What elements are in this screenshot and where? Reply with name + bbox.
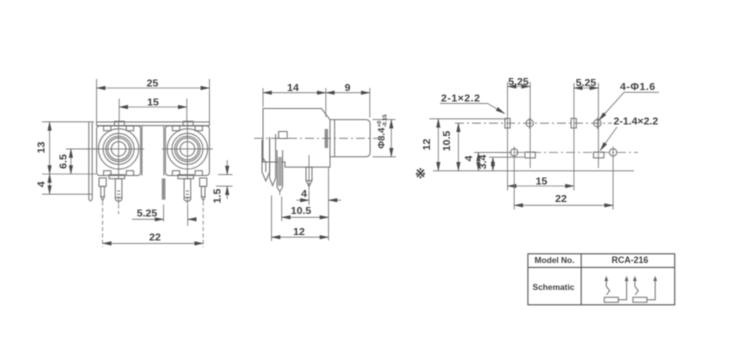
svg-text:2-1×2.2: 2-1×2.2 [441, 93, 480, 105]
bottom hole E [511, 147, 518, 159]
dimension 6.5 [58, 149, 91, 174]
bottom slot F [525, 152, 535, 158]
middle pin (side) [306, 155, 312, 190]
dimension 10.5 (pcb) [441, 123, 459, 171]
dimension 4 (pcb) [463, 152, 511, 170]
label 2-1.4x2.2 [600, 116, 658, 151]
dimension 5.25 front [132, 205, 196, 227]
side body [263, 109, 330, 168]
dimension 22 front [103, 202, 204, 248]
dimension 5.25 first [508, 76, 531, 191]
bottom hole H [609, 147, 616, 159]
dimension 25 [97, 77, 210, 121]
svg-text:15: 15 [536, 175, 548, 187]
svg-text:1.5: 1.5 [212, 189, 224, 204]
svg-text:※: ※ [415, 166, 426, 181]
centerline side [254, 137, 378, 139]
svg-text:2-1.4×2.2: 2-1.4×2.2 [614, 116, 659, 128]
shield tab side (gray) [325, 129, 329, 148]
dimension 4 (side) [297, 167, 342, 240]
top hole B [526, 117, 533, 129]
shield tab center (gray) [162, 178, 166, 199]
svg-text:5.25: 5.25 [137, 208, 158, 220]
ground pin right [200, 178, 207, 201]
signal pin centerline dashes [118, 205, 120, 215]
svg-text:-0.15: -0.15 [383, 114, 389, 127]
svg-text:15: 15 [147, 96, 159, 108]
bottom centerline [498, 151, 638, 153]
left crosshair extension [86, 148, 96, 150]
top slot C [571, 118, 576, 128]
dimension 15 (pcb) [508, 175, 575, 187]
svg-text:Schematic: Schematic [533, 282, 575, 292]
svg-text:5.25: 5.25 [508, 76, 529, 88]
svg-text:10.5: 10.5 [291, 205, 312, 217]
dimension 12 (pcb) [421, 119, 507, 171]
label 4-dia1.6 [599, 81, 659, 120]
dimension 13 [36, 122, 97, 174]
mounting plate top [97, 122, 210, 126]
bracket tab big (side) [262, 134, 276, 186]
dimension 9 [326, 82, 370, 118]
svg-text:12: 12 [421, 139, 433, 151]
schematic unit 2 [633, 276, 657, 302]
bracket pin 2 (side) [277, 132, 287, 196]
svg-text:13: 13 [36, 142, 48, 154]
dimension 5.25 second [574, 77, 599, 190]
svg-text:6.5: 6.5 [58, 154, 70, 169]
dimension 10.5 [282, 197, 329, 222]
ground pin left [99, 178, 106, 201]
table frame [528, 254, 675, 305]
svg-text:4-Φ1.6: 4-Φ1.6 [620, 81, 656, 93]
dimension dia 8.4 [373, 114, 397, 156]
side barrel [330, 120, 370, 157]
svg-text:22: 22 [149, 231, 161, 243]
top hole D [594, 117, 601, 129]
baseline [433, 170, 634, 172]
RCA jack right [162, 121, 213, 204]
svg-text:Φ8.4: Φ8.4 [377, 127, 388, 149]
bottom slot G [594, 152, 604, 158]
label 2-1x2.2 [440, 93, 505, 114]
RCA jack left [93, 121, 144, 204]
dimension 4 left [36, 174, 93, 194]
svg-text:22: 22 [555, 193, 567, 205]
dimension 22 (pcb) [514, 158, 613, 210]
jack side flange lines in gap [141, 126, 143, 176]
dimension 3.4 (pcb) [477, 155, 524, 171]
svg-text:4: 4 [36, 181, 48, 187]
svg-text:9: 9 [345, 82, 351, 94]
svg-text:25: 25 [147, 77, 159, 89]
svg-text:4: 4 [463, 155, 475, 161]
top slot A [505, 118, 510, 128]
svg-text:3.4: 3.4 [477, 155, 489, 170]
svg-text:4: 4 [301, 188, 307, 200]
dimension 14 [263, 82, 326, 117]
dimension 12 (side) [272, 196, 329, 242]
top centerline [455, 122, 612, 124]
svg-text:RCA-216: RCA-216 [612, 255, 649, 265]
svg-text:14: 14 [287, 82, 299, 94]
svg-text:10.5: 10.5 [441, 131, 453, 152]
dimension 15 [119, 96, 187, 121]
dimension 1.5 right [212, 160, 233, 203]
svg-text:5.25: 5.25 [576, 77, 597, 89]
svg-text:Model No.: Model No. [534, 255, 574, 265]
left bracket tab [89, 122, 92, 201]
svg-text:12: 12 [293, 226, 305, 238]
schematic unit 1 [604, 276, 628, 302]
